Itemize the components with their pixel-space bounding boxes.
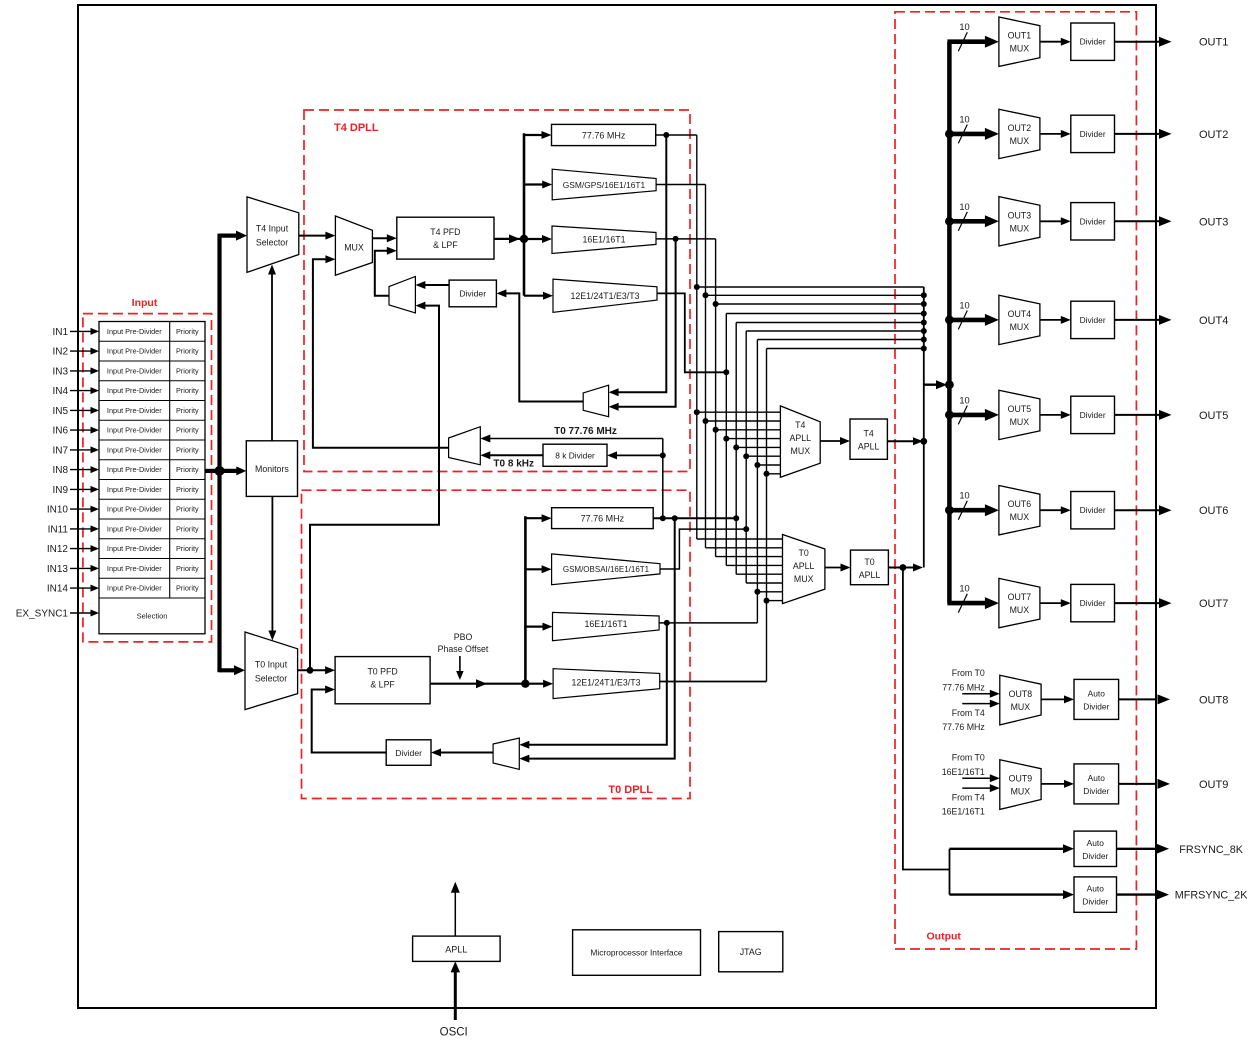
red dashed group box: Output xyxy=(895,12,1136,949)
svg-text:Phase Offset: Phase Offset xyxy=(438,644,489,654)
mux T4 APLL MUX xyxy=(780,406,820,477)
svg-text:Priority: Priority xyxy=(176,524,199,533)
svg-text:IN1: IN1 xyxy=(52,327,68,338)
svg-text:From T4: From T4 xyxy=(952,708,985,718)
svg-text:Priority: Priority xyxy=(176,465,199,474)
svg-text:Input Pre-Divider: Input Pre-Divider xyxy=(107,347,162,356)
wire T0 77.76 output to v5 xyxy=(653,517,736,519)
svg-text:Priority: Priority xyxy=(176,327,199,336)
svg-text:JTAG: JTAG xyxy=(740,947,762,957)
svg-text:IN2: IN2 xyxy=(52,347,68,358)
svg-text:MUX: MUX xyxy=(1010,605,1030,615)
wire T0 Input Selector to T0 PFD xyxy=(298,669,327,671)
mux fb mux B (T0 77.76 / T0 8k select) xyxy=(449,427,481,465)
svg-text:12E1/24T1/E3/T3: 12E1/24T1/E3/T3 xyxy=(571,291,640,301)
wire PBO arrow onto PFD output xyxy=(459,656,461,672)
svg-text:FRSYNC_8K: FRSYNC_8K xyxy=(1179,844,1243,856)
wire main output bus (10-signal, thick) xyxy=(947,42,952,603)
wire T4 12E1 to T0 APLL MUX xyxy=(726,564,782,566)
svg-text:IN9: IN9 xyxy=(52,485,68,496)
wire T4 16E1 output with feedback tap xyxy=(656,238,716,240)
wire bus branch to OUT6 MUX (10) xyxy=(947,508,985,513)
svg-text:Input Pre-Divider: Input Pre-Divider xyxy=(107,564,162,573)
block Divider (OUT1) xyxy=(1071,23,1115,60)
svg-text:OUT4: OUT4 xyxy=(1008,309,1032,319)
input pre-divider / priority table xyxy=(99,322,205,634)
svg-text:12E1/24T1/E3/T3: 12E1/24T1/E3/T3 xyxy=(572,678,641,688)
wire T4 12E1 output jog to v4 xyxy=(657,293,726,372)
svg-text:Divider: Divider xyxy=(1080,129,1106,139)
junction bus OUT5 xyxy=(945,411,954,420)
svg-text:OUT3: OUT3 xyxy=(1199,216,1228,228)
mux fb mux C (T4 feedback select) xyxy=(583,385,608,417)
svg-text:Input Pre-Divider: Input Pre-Divider xyxy=(107,544,162,553)
svg-text:MUX: MUX xyxy=(1010,417,1030,427)
svg-text:MUX: MUX xyxy=(1011,786,1031,796)
svg-text:Microprocessor Interface: Microprocessor Interface xyxy=(590,948,682,958)
divider 16E1/16T1 (T0) xyxy=(553,612,660,640)
svg-text:8 k Divider: 8 k Divider xyxy=(555,451,595,461)
wire T0 APLL output to collector xyxy=(888,567,915,569)
svg-text:Selector: Selector xyxy=(255,674,287,684)
mux fb mux A (T4 PFD feedback select) xyxy=(389,277,415,314)
wire IN5 to table xyxy=(70,409,92,411)
junction T4 distribution node xyxy=(520,235,528,243)
wire OUT2 output xyxy=(1115,133,1160,135)
wire bundle line T4 16E1 to collector xyxy=(716,303,924,305)
svg-text:MUX: MUX xyxy=(344,243,364,253)
wire T0 12E1 to T4 APLL MUX xyxy=(767,473,781,475)
wire IN8 to table xyxy=(70,469,92,471)
svg-text:Priority: Priority xyxy=(176,406,199,415)
svg-text:OUT9: OUT9 xyxy=(1199,779,1228,791)
block Divider (T4 feedback divider) xyxy=(449,280,496,307)
svg-text:Output: Output xyxy=(927,931,962,943)
wire T4 GSM to T0 APLL MUX xyxy=(706,547,783,549)
wire T4 77.76 output with feedback tap xyxy=(656,134,697,136)
input reference bus (thick) from table to selectors xyxy=(205,469,218,473)
wire rail T0 16E1 xyxy=(756,340,758,623)
svg-text:77.76 MHz: 77.76 MHz xyxy=(942,682,985,692)
block Divider (OUT2) xyxy=(1071,115,1115,152)
wire APLL output up xyxy=(454,890,456,936)
svg-text:10: 10 xyxy=(959,114,969,124)
wire OUT3 MUX to Divider xyxy=(1040,220,1062,222)
mux MUX (T4 reference mux) xyxy=(335,216,372,275)
wire T0 77.76 to T4 APLL MUX xyxy=(736,446,780,448)
svg-text:MFRSYNC_2K: MFRSYNC_2K xyxy=(1175,890,1248,902)
wire bundle line T0 16E1 to collector xyxy=(757,339,923,341)
divider GSM/OBSAI/16E1/16T1 (T0) xyxy=(552,554,660,585)
svg-text:IN7: IN7 xyxy=(52,445,68,456)
svg-text:Input Pre-Divider: Input Pre-Divider xyxy=(107,327,162,336)
junction bus feed xyxy=(945,380,954,389)
wire OUT1 output xyxy=(1115,41,1160,43)
wire fb mux B output to MUX lower input xyxy=(313,259,449,448)
wire IN3 to table xyxy=(70,370,92,372)
svg-text:APLL: APLL xyxy=(858,442,880,452)
svg-text:10: 10 xyxy=(959,491,969,501)
svg-text:77.76 MHz: 77.76 MHz xyxy=(942,722,985,732)
svg-text:APLL: APLL xyxy=(793,561,815,571)
wire T4 12E1 to T4 APLL MUX xyxy=(726,438,780,440)
wire rail T4 77.76 xyxy=(696,135,698,539)
wire T0 Divider return to T0 PFD xyxy=(312,690,387,753)
wire T4 Input Selector to MUX xyxy=(299,235,327,237)
wire bus branch to OUT4 MUX (10) xyxy=(947,318,985,323)
svg-text:OUT4: OUT4 xyxy=(1199,315,1228,327)
wire Monitors to T0 Input Selector xyxy=(271,496,273,632)
svg-text:T4: T4 xyxy=(864,429,874,439)
svg-text:10: 10 xyxy=(959,300,969,310)
svg-text:Input Pre-Divider: Input Pre-Divider xyxy=(107,426,162,435)
svg-text:10: 10 xyxy=(959,202,969,212)
wire bundle line T0 77.76 to collector xyxy=(736,322,924,324)
svg-text:Input Pre-Divider: Input Pre-Divider xyxy=(107,465,162,474)
wire T0 12E1 output to v8 xyxy=(660,681,767,683)
svg-text:Input Pre-Divider: Input Pre-Divider xyxy=(107,445,162,454)
svg-text:Divider: Divider xyxy=(1083,701,1109,711)
wire T0 GSM output riser to v6 xyxy=(660,529,746,569)
svg-text:16E1/16T1: 16E1/16T1 xyxy=(584,619,627,629)
wire bundle line T0 GSM to collector xyxy=(746,330,924,332)
wire T4 77.76 to T4 APLL MUX xyxy=(697,411,781,413)
block T4 PFD & LPF xyxy=(397,217,494,259)
block JTAG xyxy=(719,932,783,972)
wire bus branch to OUT1 MUX (10) xyxy=(947,39,985,44)
svg-text:77.76 MHz: 77.76 MHz xyxy=(581,514,625,524)
svg-text:Divider: Divider xyxy=(1080,315,1106,325)
block Auto Divider (OUT9) xyxy=(1074,764,1119,804)
wire T0 77.76 to T0 APLL MUX xyxy=(736,573,782,575)
wire OUT4 output xyxy=(1115,319,1160,321)
wire bundle line T4 12E1 to collector xyxy=(726,313,924,315)
svg-text:16E1/16T1: 16E1/16T1 xyxy=(942,806,985,816)
svg-text:Priority: Priority xyxy=(176,544,199,553)
wire T0 APLL MUX to T0 APLL xyxy=(825,567,842,569)
svg-text:MUX: MUX xyxy=(1010,512,1030,522)
svg-text:OUT9: OUT9 xyxy=(1009,773,1033,783)
svg-text:From T0: From T0 xyxy=(952,668,985,678)
wire bus branch to OUT5 MUX (10) xyxy=(947,413,985,418)
svg-text:Auto: Auto xyxy=(1087,838,1105,848)
wire OUT7 MUX to Divider xyxy=(1040,602,1062,604)
wire T4 APLL MUX to T4 APLL xyxy=(820,440,841,442)
wire OUT1 MUX to Divider xyxy=(1040,41,1062,43)
divider GSM/GPS/16E1/16T1 (T4) xyxy=(552,169,656,200)
svg-text:Priority: Priority xyxy=(176,584,199,593)
wire T4 feedback to T4 PFD (from fb mux A) xyxy=(375,251,389,296)
block 8 k Divider xyxy=(543,444,607,466)
wire T4 16E1 to T0 APLL MUX xyxy=(716,556,783,558)
svg-text:Input Pre-Divider: Input Pre-Divider xyxy=(107,524,162,533)
svg-text:Auto: Auto xyxy=(1088,773,1106,783)
svg-text:Divider: Divider xyxy=(1080,216,1106,226)
svg-text:IN13: IN13 xyxy=(47,564,69,575)
wire MFRSYNC_2K output xyxy=(1117,893,1157,895)
mux OUT1 MUX xyxy=(999,17,1040,66)
wire bus branch to OUT2 MUX (10) xyxy=(947,132,985,137)
junction T0 reference node xyxy=(307,667,314,674)
mux OUT4 MUX xyxy=(999,295,1040,344)
svg-text:Divider: Divider xyxy=(1080,37,1106,47)
svg-text:OUT6: OUT6 xyxy=(1008,499,1032,509)
svg-text:OUT8: OUT8 xyxy=(1199,694,1228,706)
block Divider (OUT5) xyxy=(1071,396,1115,433)
svg-text:MUX: MUX xyxy=(1011,702,1031,712)
svg-text:Priority: Priority xyxy=(176,366,199,375)
wire T0 16E1 to T4 APLL MUX xyxy=(757,464,780,466)
svg-text:16E1/16T1: 16E1/16T1 xyxy=(582,235,625,245)
wire T0 APLL to frame sync dividers xyxy=(903,568,950,870)
junction bus OUT2 xyxy=(945,130,954,139)
svg-text:OUT8: OUT8 xyxy=(1009,689,1033,699)
wire T4 APLL output to collector xyxy=(887,440,915,442)
svg-text:T4 DPLL: T4 DPLL xyxy=(334,122,379,134)
svg-text:Divider: Divider xyxy=(1080,410,1106,420)
block Divider (OUT7) xyxy=(1071,584,1115,621)
svg-text:Auto: Auto xyxy=(1087,884,1105,894)
wire IN10 to table xyxy=(70,508,92,510)
wire T4 77.76 to T0 APLL MUX xyxy=(697,538,783,540)
svg-text:Divider: Divider xyxy=(1080,598,1106,608)
svg-text:IN12: IN12 xyxy=(47,544,69,555)
svg-text:PBO: PBO xyxy=(454,632,473,642)
svg-text:Priority: Priority xyxy=(176,505,199,514)
svg-text:APLL: APLL xyxy=(445,944,467,954)
wire T0 77.76 feedback drop to fb mux xyxy=(528,518,675,758)
wire T0 GSM to T0 APLL MUX xyxy=(746,582,782,584)
wire bundle line T4 77.76 to collector xyxy=(697,286,924,288)
svg-text:Priority: Priority xyxy=(176,564,199,573)
wire rail T4 16E1 xyxy=(715,239,717,557)
wire T0 16E1 to T0 APLL MUX xyxy=(757,591,782,593)
wire T0 reference to fb mux A xyxy=(310,306,439,671)
red dashed group box: Input xyxy=(83,314,212,642)
block Monitors xyxy=(246,441,297,497)
wire bus to Monitors xyxy=(220,469,239,473)
svg-text:Divider: Divider xyxy=(1082,897,1108,907)
svg-text:Divider: Divider xyxy=(1083,786,1109,796)
svg-text:MUX: MUX xyxy=(1010,44,1030,54)
wire collector to output bus (10) xyxy=(924,384,941,386)
svg-text:T0 DPLL: T0 DPLL xyxy=(608,784,653,796)
wire feedback 77.76 to fb mux C xyxy=(617,135,666,392)
svg-text:IN8: IN8 xyxy=(52,465,68,476)
svg-text:Priority: Priority xyxy=(176,386,199,395)
svg-text:Divider: Divider xyxy=(1080,505,1106,515)
wire feed to Auto Divider (FRSYNC_8K) xyxy=(950,848,1066,850)
wire From T4 stub to OUT8 MUX xyxy=(962,703,991,705)
wire IN12 to table xyxy=(70,548,92,550)
svg-text:IN11: IN11 xyxy=(48,524,69,535)
svg-text:& LPF: & LPF xyxy=(370,680,395,690)
mux T0 feedback select xyxy=(493,738,519,769)
mux OUT2 MUX xyxy=(999,109,1040,158)
svg-text:& LPF: & LPF xyxy=(433,240,458,250)
junction T0 APLL frame-sync tap xyxy=(900,564,907,571)
wire rail T0 12E1 xyxy=(766,349,768,682)
block Auto Divider (OUT8) xyxy=(1074,679,1119,719)
wire OUT5 output xyxy=(1115,414,1160,416)
svg-text:77.76 MHz: 77.76 MHz xyxy=(582,130,626,140)
svg-text:GSM/GPS/16E1/16T1: GSM/GPS/16E1/16T1 xyxy=(563,180,646,190)
svg-text:Input Pre-Divider: Input Pre-Divider xyxy=(107,485,162,494)
svg-text:OSCI: OSCI xyxy=(440,1027,468,1039)
svg-text:MUX: MUX xyxy=(794,574,814,584)
svg-text:GSM/OBSAI/16E1/16T1: GSM/OBSAI/16E1/16T1 xyxy=(563,565,650,574)
wire OSCI input to APLL xyxy=(454,970,457,1020)
mux OUT7 MUX xyxy=(999,578,1040,627)
svg-text:Monitors: Monitors xyxy=(255,464,289,474)
svg-text:IN3: IN3 xyxy=(52,366,68,377)
wire OUT9 MUX to Auto Divider xyxy=(1041,783,1065,785)
block T4 APLL xyxy=(850,419,887,459)
wire OUT4 MUX to Divider xyxy=(1040,319,1062,321)
mux OUT3 MUX xyxy=(999,197,1040,246)
svg-text:APLL: APLL xyxy=(790,433,812,443)
wire OUT8 MUX to Auto Divider xyxy=(1041,698,1065,700)
wire From T4 stub to OUT9 MUX xyxy=(962,787,991,789)
wire Monitors to T4 Input Selector xyxy=(271,274,273,441)
block APLL xyxy=(413,936,501,961)
mux OUT8 MUX xyxy=(1000,675,1041,725)
wire T0 12E1 to T0 APLL MUX xyxy=(767,600,783,602)
wire rail T4 GSM xyxy=(705,185,707,548)
svg-text:Input Pre-Divider: Input Pre-Divider xyxy=(107,386,162,395)
block Microprocessor Interface xyxy=(573,930,701,976)
block Auto Divider (FRSYNC_8K) xyxy=(1074,831,1117,866)
wire FRSYNC_8K output xyxy=(1117,848,1157,850)
junction bus OUT6 xyxy=(945,506,954,515)
svg-text:T4: T4 xyxy=(795,420,805,430)
junction T0 distribution node xyxy=(521,680,529,688)
wire OUT6 output xyxy=(1115,509,1160,511)
svg-text:From T4: From T4 xyxy=(952,792,985,802)
wire T4 GSM to T4 APLL MUX xyxy=(706,420,781,422)
wire IN6 to table xyxy=(70,429,92,431)
block Divider (OUT6) xyxy=(1071,492,1115,529)
wire fb mux C to T4 Divider xyxy=(505,293,583,401)
wire MUX to T4 PFD xyxy=(372,237,388,239)
wire From T0 stub to OUT9 MUX xyxy=(962,777,991,779)
svg-text:OUT1: OUT1 xyxy=(1199,37,1228,49)
svg-text:T0: T0 xyxy=(799,548,809,558)
wire T4 distribution line xyxy=(523,133,526,239)
wire feedback 16E1 to fb mux C xyxy=(617,239,676,407)
svg-text:16E1/16T1: 16E1/16T1 xyxy=(942,767,985,777)
svg-text:OUT3: OUT3 xyxy=(1008,210,1032,220)
wire bus branch to OUT7 MUX (10) xyxy=(947,601,985,606)
svg-text:T0 Input: T0 Input xyxy=(255,660,288,670)
wire T0 16E1 feedback drop to fb mux xyxy=(528,623,667,745)
wire From T0 stub to OUT8 MUX xyxy=(962,693,991,695)
wire collector vertical (10-signal node) xyxy=(923,287,925,568)
wire IN13 to table xyxy=(70,567,92,569)
mux OUT9 MUX xyxy=(1000,760,1041,810)
mux OUT6 MUX xyxy=(999,486,1040,535)
svg-text:IN4: IN4 xyxy=(52,386,68,397)
svg-text:Input Pre-Divider: Input Pre-Divider xyxy=(107,406,162,415)
wire T4 16E1 to T4 APLL MUX xyxy=(716,429,781,431)
wire bus branch to OUT3 MUX (10) xyxy=(947,219,985,224)
svg-text:Priority: Priority xyxy=(176,445,199,454)
wire IN2 to table xyxy=(70,350,92,352)
svg-text:Input Pre-Divider: Input Pre-Divider xyxy=(107,505,162,514)
red dashed group box: T4 DPLL xyxy=(304,110,690,472)
wire 8 k Divider output to fb mux B xyxy=(489,454,543,456)
svg-text:OUT7: OUT7 xyxy=(1199,598,1228,610)
wire IN14 to table xyxy=(70,587,92,589)
wire OUT2 MUX to Divider xyxy=(1040,133,1062,135)
svg-text:Priority: Priority xyxy=(176,485,199,494)
svg-text:MUX: MUX xyxy=(791,446,811,456)
wire T0 distribution line xyxy=(524,516,527,684)
svg-text:Selector: Selector xyxy=(256,238,288,248)
svg-text:Divider: Divider xyxy=(1082,851,1108,861)
wire IN9 to table xyxy=(70,488,92,490)
svg-text:T4 PFD: T4 PFD xyxy=(430,227,460,237)
svg-text:MUX: MUX xyxy=(1010,223,1030,233)
wire junction to 8 k Divider xyxy=(616,454,663,456)
block T0 APLL xyxy=(851,550,889,585)
wire rail T0 77.76 xyxy=(735,323,737,575)
svg-text:10: 10 xyxy=(959,395,969,405)
svg-text:T4 Input: T4 Input xyxy=(256,224,289,234)
junction input bus xyxy=(215,466,225,476)
svg-text:Input Pre-Divider: Input Pre-Divider xyxy=(107,366,162,375)
svg-text:Priority: Priority xyxy=(176,426,199,435)
svg-text:EX_SYNC1: EX_SYNC1 xyxy=(16,608,69,619)
wire rail T4 12E1 xyxy=(725,314,727,566)
mux T0 Input Selector xyxy=(245,632,298,710)
wire T0 PFD output to distribution node xyxy=(430,683,479,685)
svg-text:OUT5: OUT5 xyxy=(1199,410,1228,422)
junction bus OUT4 xyxy=(945,316,954,325)
wire T0 77.76 tap riser xyxy=(662,439,664,519)
wire OUT6 MUX to Divider xyxy=(1040,509,1062,511)
svg-text:IN14: IN14 xyxy=(47,584,69,595)
svg-text:Divider: Divider xyxy=(459,289,486,299)
svg-text:T0 PFD: T0 PFD xyxy=(367,667,397,677)
block Auto Divider (MFRSYNC_2K) xyxy=(1074,877,1117,912)
mux T0 APLL MUX xyxy=(783,535,825,604)
svg-text:IN5: IN5 xyxy=(52,406,68,417)
wire IN1 to table xyxy=(70,330,92,332)
junction bus OUT3 xyxy=(945,217,954,226)
svg-text:MUX: MUX xyxy=(1010,322,1030,332)
svg-text:T0: T0 xyxy=(864,557,874,567)
svg-text:OUT5: OUT5 xyxy=(1008,404,1032,414)
mux OUT5 MUX xyxy=(999,390,1040,439)
red dashed group box: T0 DPLL xyxy=(302,490,691,798)
wire T0 16E1 output to v7 xyxy=(659,622,757,624)
svg-text:IN6: IN6 xyxy=(52,426,68,437)
svg-text:Divider: Divider xyxy=(395,748,422,758)
svg-text:OUT2: OUT2 xyxy=(1199,129,1228,141)
block 77.76 MHz divider (T0) xyxy=(552,508,654,529)
svg-text:IN10: IN10 xyxy=(47,505,69,516)
block Divider (OUT3) xyxy=(1071,203,1115,240)
svg-text:APLL: APLL xyxy=(859,570,881,580)
wire T0 77.76 MHz feedback line xyxy=(489,438,663,440)
block T0 PFD & LPF xyxy=(335,657,430,704)
svg-text:OUT1: OUT1 xyxy=(1008,31,1032,41)
svg-text:10: 10 xyxy=(959,584,969,594)
wire T4 PFD output to distribution node xyxy=(494,238,512,240)
svg-text:MUX: MUX xyxy=(1010,136,1030,146)
svg-text:Input Pre-Divider: Input Pre-Divider xyxy=(107,584,162,593)
